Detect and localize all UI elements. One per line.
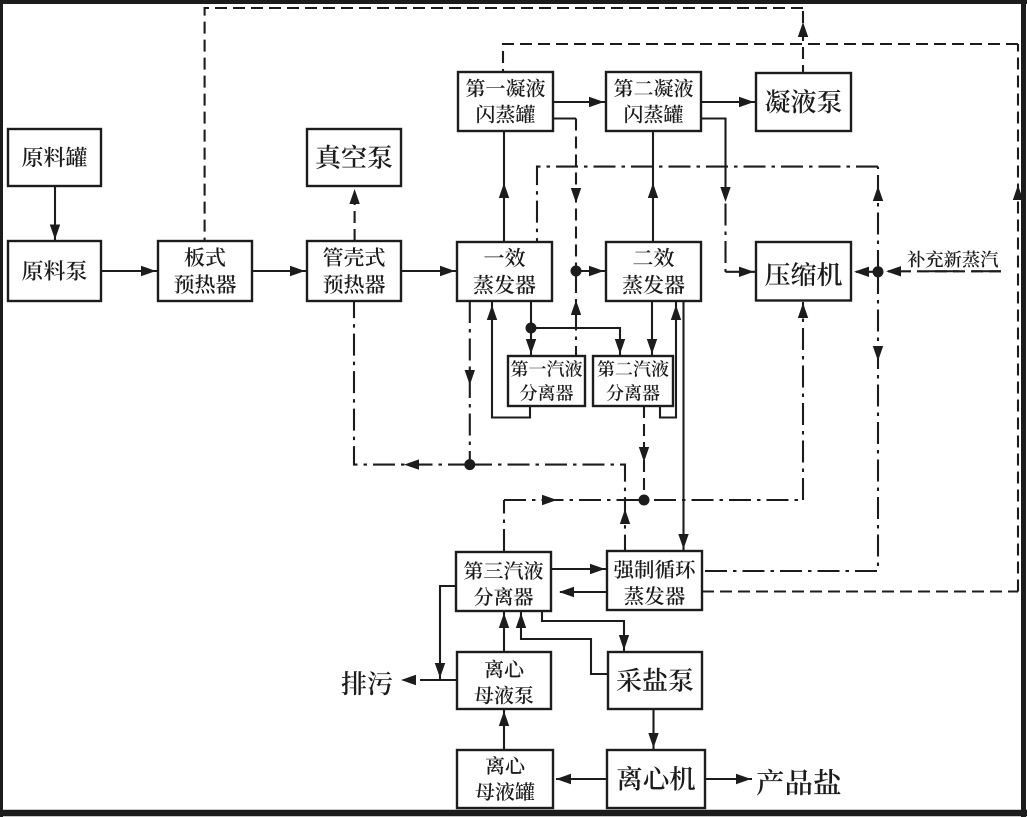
wire dash-dot discharge header y166 (537, 167, 878, 241)
arrowhead into 第三汽液分离器 right (559, 587, 574, 597)
label 产品盐 (757, 769, 841, 796)
box 第二汽液分离器 (593, 356, 673, 406)
wire 板式预热器→管壳式预热器 (252, 270, 306, 272)
box 凝液泵 (756, 73, 851, 131)
box 采盐泵 (608, 652, 702, 709)
wire dash-dot suction header (504, 499, 803, 501)
wire dash-dot node A→第一汽液分离器 top (575, 271, 577, 356)
arrowhead into 离心机 top (648, 733, 658, 748)
wire dash-dot riser into 压缩机 bottom (802, 302, 804, 500)
wire 离心机→离心母液罐 (556, 778, 607, 780)
arrowhead into 强制循环蒸发器 top (right) (678, 534, 688, 549)
wire dash-dot node E→管壳式预热器 bottom (354, 301, 470, 465)
box 管壳式预热器 (307, 241, 401, 301)
junction node C (压缩机出口/补充蒸汽) (873, 266, 884, 277)
arrowhead toward 排污 (401, 675, 416, 685)
box 离心机 (607, 750, 705, 808)
wire 离心母液罐→离心母液泵 (503, 710, 505, 750)
wire 强制循环蒸发器→第三汽液分离器 (560, 591, 607, 593)
arrowhead left toward 管壳式预热器 (404, 459, 419, 469)
box 强制循环蒸发器 (607, 551, 702, 610)
arrowhead up into 一效蒸发器 bottom (487, 305, 497, 320)
wire 原料罐→原料泵 (54, 186, 56, 240)
arrowhead into 压缩机 left (739, 267, 754, 277)
arrowhead into 第二凝液闪蒸罐 left (589, 97, 604, 107)
arrowhead into 压缩机 right (854, 267, 869, 277)
wire 第二凝液闪蒸罐 right→down segment (701, 119, 726, 167)
wire dash-dot 压缩机 discharge riser (877, 167, 879, 272)
wire dash-dot 第三汽液分离器 top riser (503, 500, 505, 551)
arrowhead into 板式预热器 left (141, 266, 156, 276)
wire 第一汽液分离器 bottom return U (492, 301, 530, 418)
wire 第二凝液闪蒸罐→凝液泵 (701, 101, 755, 103)
arrowhead into 管壳式预热器 left (290, 266, 305, 276)
wire tee→离心母液泵 left (440, 679, 457, 681)
wire 一效蒸发器 top→第一凝液闪蒸罐 bottom (503, 131, 505, 242)
arrowhead into 离心母液罐 right (556, 774, 571, 784)
wire 二效蒸发器 bottom→强制循环蒸发器 top (682, 301, 684, 550)
arrowhead into 第一汽液分离器 top (526, 339, 536, 354)
box 原料泵 (8, 241, 101, 301)
arrowhead up toward node A (571, 300, 581, 315)
arrowhead down on 一效→node E wire (465, 370, 475, 385)
wire dash-dot node E→强制循环蒸发器 top riser (470, 465, 625, 550)
arrowhead up on 强制循环→node E riser (620, 509, 630, 524)
wire vertical dashed 闪蒸罐2→压缩机 (724, 166, 726, 272)
box 二效蒸发器 (606, 242, 701, 301)
box 原料罐 (8, 129, 101, 186)
arrowhead into 第二汽液分离器 top (left) (615, 339, 625, 354)
arrowhead up on right riser (1013, 185, 1023, 200)
arrowhead up on discharge riser (873, 186, 883, 201)
junction node A (第一闪蒸罐/分离器1→二效) (571, 266, 582, 277)
wire 采盐泵 left→第三汽液分离器 bottom (521, 612, 608, 674)
arrowhead toward 产品盐 (736, 774, 751, 784)
arrowhead up on 二效→闪蒸罐2 wire (648, 183, 658, 198)
box 压缩机 (756, 242, 851, 301)
label 排污 (342, 671, 392, 695)
wire dash-dot 一效蒸发器 bottom→node E (469, 301, 471, 465)
arrowhead up on 凝液泵 riser (798, 22, 808, 37)
wire node B→第一汽液分离器 top (530, 328, 532, 355)
box 一效蒸发器 (457, 242, 552, 301)
arrowhead down on 闪蒸罐1→node A wire (571, 188, 581, 203)
arrowhead right on suction header (542, 495, 557, 505)
wire into 压缩机 left (726, 271, 756, 273)
wire node A→二效蒸发器 left (576, 270, 605, 272)
arrowhead into 凝液泵 left (739, 97, 754, 107)
wire 离心母液泵 top→第三汽液分离器 bottom (503, 612, 505, 652)
wire 第一凝液闪蒸罐 right outlet (551, 117, 576, 119)
wire dashed 强制循环蒸发器→right riser (702, 590, 1018, 592)
box 第三汽液分离器 (456, 552, 551, 611)
box 板式预热器 (158, 241, 252, 301)
box 离心母液罐 (457, 750, 553, 808)
arrowhead into 真空泵 bottom (349, 189, 359, 204)
wire dash-dot node C→强制循环蒸发器 right (703, 272, 878, 571)
arrowhead into 一效蒸发器 left (440, 266, 455, 276)
wire dashed 凝液泵 top→top header (802, 8, 804, 131)
wire dashed 第二汽液分离器 bottom→node D (643, 406, 645, 500)
wire 离心机→产品盐 (705, 778, 752, 780)
wire 第三汽液分离器 bottom→采盐泵 top (542, 611, 624, 651)
arrowhead into 原料泵 top (50, 225, 60, 240)
wire dashed 第一凝液闪蒸罐→node A (575, 119, 577, 272)
arrowhead into 压缩机 bottom (798, 303, 808, 318)
underline of 补充新蒸汽 label (929, 270, 1001, 272)
arrowhead up into 二效蒸发器 bottom (671, 305, 681, 320)
junction node E (冷凝液汇合) (464, 459, 475, 470)
box 离心母液泵 (457, 652, 551, 709)
arrowhead into 离心母液泵 bottom (499, 711, 509, 726)
box 真空泵 (307, 129, 401, 186)
wire 一效蒸发器 bottom→node B (530, 301, 532, 328)
arrowhead down on 闪蒸罐2→压缩机 wire (720, 187, 730, 202)
arrowhead of 补充新蒸汽 into node C (886, 266, 901, 276)
wire 第三汽液分离器 left→blowdown tee (440, 586, 456, 679)
wire dashed 补充新蒸汽 feed (888, 270, 1001, 272)
arrowhead into 第二汽液分离器 top (right) (647, 339, 657, 354)
junction node B (一效底部分配) (526, 323, 537, 334)
arrowhead down on blowdown wire (435, 663, 445, 678)
arrowhead into 第三汽液分离器 bottom (left) (499, 613, 509, 628)
wire node C→压缩机 right (856, 271, 878, 273)
wire dashed 管壳式预热器→真空泵 (354, 190, 356, 241)
wire 原料泵→板式预热器 (101, 270, 157, 272)
wire dashed top header→板式预热器 top (205, 8, 803, 241)
arrowhead down on 分离器2→node D wire (639, 447, 649, 462)
arrowhead into 强制循环蒸发器 left (590, 564, 605, 574)
wire 采盐泵→离心机 (652, 709, 654, 749)
wire 第三汽液分离器→强制循环蒸发器 (551, 568, 606, 570)
label 补充新蒸汽 (907, 250, 998, 267)
wire tee→排污 arrow (420, 679, 440, 681)
wire dashed upper header→第一凝液闪蒸罐 top (503, 44, 1018, 71)
arrowhead into 采盐泵 top (619, 635, 629, 650)
wire dashed right riser (1017, 44, 1019, 592)
junction node D (二次蒸汽汇合) (639, 495, 650, 506)
wire 二效蒸发器 top→第二凝液闪蒸罐 bottom (652, 131, 654, 242)
arrowhead down toward 强制循环蒸发器 (873, 346, 883, 361)
wire node B→第二汽液分离器 top (531, 328, 620, 355)
arrowhead into 二效蒸发器 left (589, 266, 604, 276)
box 第一汽液分离器 (508, 356, 585, 406)
arrowhead up on 一效→闪蒸罐1 wire (499, 183, 509, 198)
wire 第二汽液分离器 bottom return U (660, 301, 676, 418)
wire 管壳式预热器→一效蒸发器 (401, 270, 456, 272)
wire 第一凝液闪蒸罐→第二凝液闪蒸罐 (553, 101, 605, 103)
box 第二凝液闪蒸罐 (606, 72, 701, 131)
wire 二效蒸发器 bottom→第二汽液分离器 top (651, 301, 653, 355)
box 第一凝液闪蒸罐 (458, 72, 553, 131)
arrowhead into 第三汽液分离器 bottom (right) (516, 613, 526, 628)
